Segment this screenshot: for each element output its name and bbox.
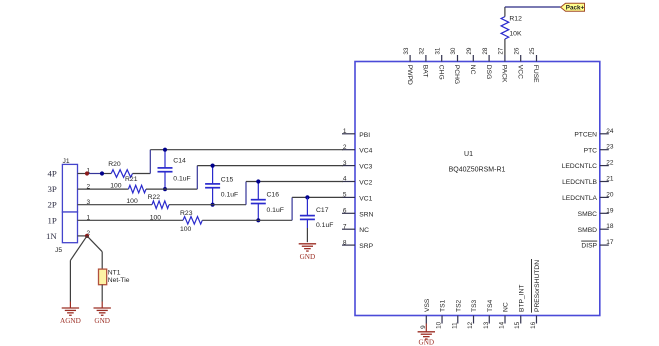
- svg-text:VC3: VC3: [359, 164, 372, 171]
- svg-text:PRESorSHUTDN: PRESorSHUTDN: [534, 260, 541, 312]
- svg-text:LEDCNTLA: LEDCNTLA: [562, 195, 597, 202]
- svg-text:2: 2: [343, 144, 347, 151]
- svg-text:11: 11: [451, 322, 458, 329]
- svg-text:J1: J1: [63, 158, 70, 165]
- svg-text:32: 32: [419, 47, 426, 55]
- svg-text:19: 19: [606, 207, 614, 214]
- svg-text:17: 17: [606, 239, 614, 246]
- svg-text:0.1uF: 0.1uF: [173, 176, 190, 183]
- svg-text:NC: NC: [359, 227, 369, 234]
- svg-text:3P: 3P: [48, 184, 57, 194]
- svg-text:Net-Tie: Net-Tie: [108, 277, 130, 284]
- svg-text:GND: GND: [94, 317, 110, 325]
- svg-text:R20: R20: [108, 161, 121, 168]
- svg-text:VSS: VSS: [424, 298, 431, 312]
- svg-text:PACK: PACK: [501, 65, 508, 83]
- svg-text:1: 1: [343, 128, 347, 135]
- svg-text:FUSE: FUSE: [532, 65, 539, 83]
- svg-text:NC: NC: [469, 65, 476, 75]
- svg-text:SMBD: SMBD: [578, 227, 597, 234]
- svg-text:30: 30: [450, 47, 457, 55]
- svg-text:PBI: PBI: [359, 132, 370, 139]
- svg-text:R12: R12: [509, 16, 522, 23]
- svg-text:SMBC: SMBC: [578, 211, 597, 218]
- svg-text:VC2: VC2: [359, 180, 372, 187]
- svg-text:0.1uF: 0.1uF: [267, 207, 284, 214]
- svg-text:25: 25: [529, 47, 536, 55]
- svg-text:1N: 1N: [46, 231, 57, 241]
- svg-text:Pack+: Pack+: [566, 5, 585, 12]
- svg-text:4: 4: [343, 176, 347, 183]
- svg-text:TS4: TS4: [487, 299, 494, 312]
- svg-text:LEDCNTLC: LEDCNTLC: [562, 163, 597, 170]
- svg-text:LEDCNTLB: LEDCNTLB: [562, 179, 597, 186]
- svg-text:5: 5: [343, 192, 347, 199]
- svg-text:33: 33: [403, 47, 410, 55]
- svg-text:1P: 1P: [48, 215, 57, 225]
- svg-text:10: 10: [436, 321, 443, 329]
- svg-text:VC1: VC1: [359, 195, 372, 202]
- svg-text:20: 20: [606, 191, 614, 198]
- svg-text:U1: U1: [464, 151, 473, 158]
- svg-text:12: 12: [467, 321, 474, 329]
- svg-text:6: 6: [343, 208, 347, 215]
- svg-text:7: 7: [343, 223, 347, 230]
- svg-text:VC4: VC4: [359, 148, 372, 155]
- svg-text:R22: R22: [148, 194, 161, 201]
- svg-text:GND: GND: [419, 338, 435, 346]
- svg-text:C14: C14: [173, 158, 186, 165]
- svg-text:26: 26: [513, 47, 520, 55]
- svg-text:16: 16: [530, 321, 537, 329]
- svg-text:SRN: SRN: [359, 211, 373, 218]
- svg-text:27: 27: [498, 47, 505, 55]
- svg-text:DSG: DSG: [485, 65, 492, 80]
- svg-text:NC: NC: [503, 302, 510, 312]
- svg-text:VCC: VCC: [516, 65, 523, 79]
- svg-text:C15: C15: [221, 176, 234, 183]
- svg-text:DISP: DISP: [581, 243, 597, 250]
- svg-text:21: 21: [606, 176, 614, 183]
- svg-text:BAT: BAT: [422, 65, 429, 78]
- svg-text:AGND: AGND: [60, 317, 81, 325]
- svg-text:TS1: TS1: [440, 299, 447, 312]
- svg-text:2P: 2P: [48, 200, 57, 210]
- svg-text:PTCEN: PTCEN: [574, 131, 597, 138]
- svg-text:0.1uF: 0.1uF: [221, 191, 238, 198]
- svg-text:SRP: SRP: [359, 243, 373, 250]
- svg-text:22: 22: [606, 160, 614, 167]
- svg-text:10K: 10K: [509, 31, 522, 38]
- svg-text:PTC: PTC: [584, 147, 598, 154]
- svg-text:14: 14: [499, 321, 506, 329]
- svg-text:J5: J5: [55, 247, 62, 254]
- svg-text:R21: R21: [125, 176, 138, 183]
- svg-text:23: 23: [606, 144, 614, 151]
- svg-text:3: 3: [343, 160, 347, 167]
- svg-text:GND: GND: [300, 253, 316, 261]
- svg-text:PCHG: PCHG: [453, 65, 460, 84]
- svg-text:4P: 4P: [48, 169, 57, 179]
- svg-text:CHG: CHG: [437, 65, 444, 80]
- svg-text:C16: C16: [267, 191, 280, 198]
- svg-text:C17: C17: [316, 207, 329, 214]
- svg-text:31: 31: [434, 47, 441, 55]
- svg-text:18: 18: [606, 223, 614, 230]
- svg-text:0.1uF: 0.1uF: [316, 222, 333, 229]
- svg-text:29: 29: [466, 47, 473, 55]
- svg-text:100: 100: [180, 226, 192, 233]
- svg-text:BTP_INT: BTP_INT: [518, 285, 525, 313]
- svg-text:24: 24: [606, 128, 614, 135]
- svg-text:R23: R23: [180, 210, 193, 217]
- svg-text:8: 8: [343, 239, 347, 246]
- svg-text:28: 28: [482, 47, 489, 55]
- svg-text:TS3: TS3: [471, 299, 478, 312]
- svg-text:PWPD: PWPD: [406, 65, 413, 85]
- svg-text:NT1: NT1: [108, 270, 121, 277]
- svg-text:TS2: TS2: [455, 299, 462, 312]
- svg-text:15: 15: [514, 321, 521, 329]
- svg-text:BQ40Z50RSM-R1: BQ40Z50RSM-R1: [449, 166, 506, 173]
- svg-text:13: 13: [483, 321, 490, 329]
